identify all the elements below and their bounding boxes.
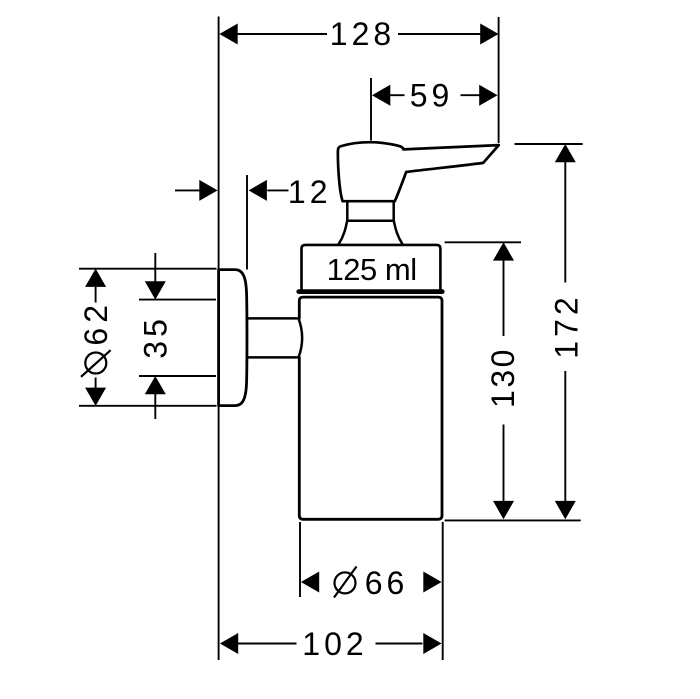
svg-text:35: 35 [138,315,174,359]
svg-text:62: 62 [78,300,114,346]
svg-text:66: 66 [365,565,409,601]
svg-text:125 ml: 125 ml [327,252,417,287]
svg-text:102: 102 [302,626,367,662]
svg-text:172: 172 [549,293,585,358]
svg-text:130: 130 [485,347,521,408]
svg-text:59: 59 [410,78,454,114]
svg-text:12: 12 [288,174,332,210]
svg-text:128: 128 [330,16,395,52]
